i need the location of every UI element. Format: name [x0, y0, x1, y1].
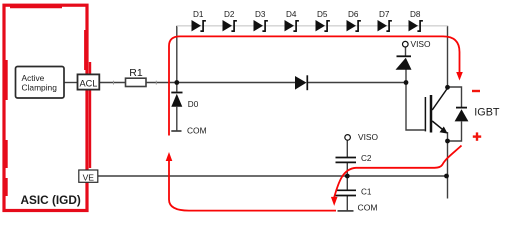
svg-text:COM: COM	[187, 126, 207, 136]
svg-text:D1: D1	[193, 10, 204, 19]
svg-text:D6: D6	[348, 10, 359, 19]
svg-text:VE: VE	[83, 173, 95, 183]
svg-text:D0: D0	[188, 100, 199, 109]
svg-text:ACL: ACL	[79, 79, 97, 89]
svg-text:D4: D4	[286, 10, 297, 19]
svg-text:R1: R1	[129, 67, 143, 79]
svg-text:D3: D3	[255, 10, 266, 19]
svg-text:D2: D2	[224, 10, 235, 19]
svg-text:ASIC (IGD): ASIC (IGD)	[21, 193, 81, 207]
svg-text:Clamping: Clamping	[22, 82, 58, 92]
svg-text:D8: D8	[410, 10, 421, 19]
svg-text:COM: COM	[358, 203, 378, 213]
svg-text:IGBT: IGBT	[474, 107, 500, 119]
svg-text:VISO: VISO	[411, 39, 431, 49]
svg-text:D7: D7	[379, 10, 390, 19]
svg-text:C2: C2	[361, 154, 372, 163]
svg-text:VISO: VISO	[358, 132, 378, 142]
svg-text:C1: C1	[361, 188, 372, 197]
svg-text:D5: D5	[317, 10, 328, 19]
